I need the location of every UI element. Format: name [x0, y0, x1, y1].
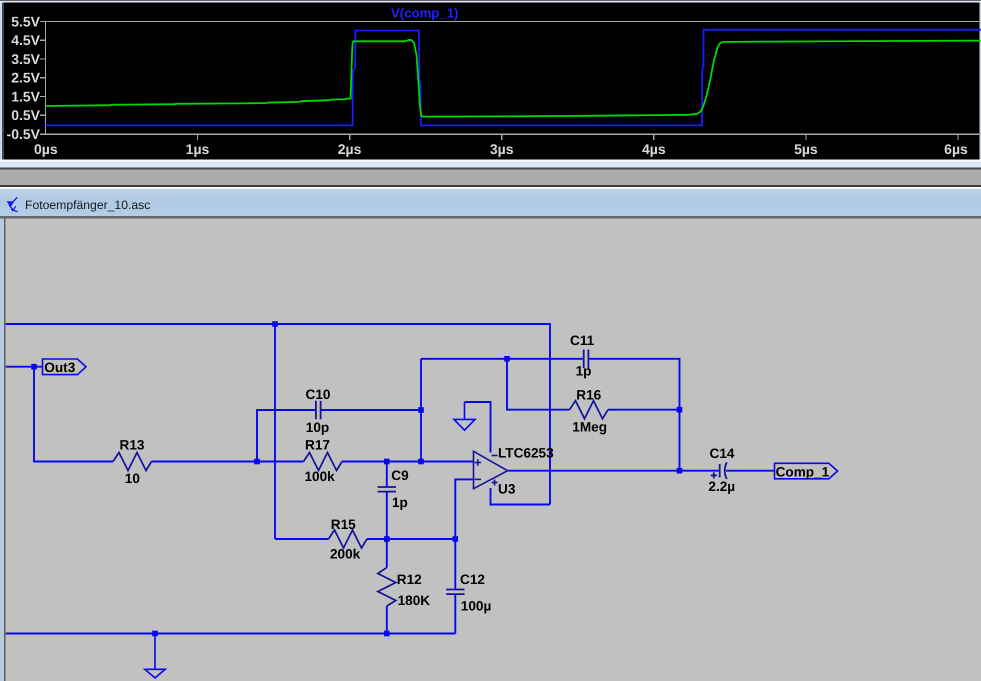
svg-text:0µs: 0µs: [34, 141, 58, 157]
junction ground stub: [152, 631, 158, 637]
svg-text:200k: 200k: [330, 547, 361, 562]
junction R16 tap: [504, 356, 510, 362]
junction R12/C9 node: [384, 536, 390, 542]
svg-text:10p: 10p: [306, 420, 329, 435]
svg-text:2µs: 2µs: [338, 141, 362, 157]
svg-text:2.5V: 2.5V: [11, 70, 40, 86]
wire op-amp V+ pin to top rail: [491, 488, 551, 505]
svg-text:C11: C11: [570, 333, 595, 348]
svg-text:-0.5V: -0.5V: [7, 126, 41, 142]
junction at x=257 input node: [254, 459, 260, 465]
wire R13 to R17: [152, 461, 304, 463]
wire op-amp output: [508, 470, 719, 472]
plot frame: [45, 22, 981, 135]
wire from Out3 down and to R13: [34, 367, 113, 462]
schematic window title bar: [0, 189, 981, 216]
wire ground rail: [6, 633, 456, 635]
junction output/feedback: [677, 468, 683, 474]
ground flag near op-amp: [454, 402, 475, 430]
trace V(comp_1) blue: [45, 30, 981, 126]
junction x421 input wire: [418, 459, 424, 465]
svg-text:V(comp_1): V(comp_1): [391, 5, 458, 20]
resistor R16: [570, 401, 609, 419]
wire C11 net horizontal y=358.8: [421, 358, 583, 360]
svg-text:Fotoempfänger_10.asc: Fotoempfänger_10.asc: [25, 198, 150, 212]
svg-text:5µs: 5µs: [794, 141, 818, 157]
svg-text:U3: U3: [498, 481, 516, 496]
svg-text:C12: C12: [460, 572, 485, 587]
x-axis labels: [34, 141, 968, 157]
resistor R17: [304, 453, 343, 471]
wire R17 to op-amp input: [342, 461, 474, 463]
svg-text:Comp_1: Comp_1: [776, 464, 830, 479]
y-axis ticks: [40, 22, 45, 135]
schematic canvas: [6, 219, 981, 681]
svg-text:3.5V: 3.5V: [11, 51, 40, 67]
wire R15 row y=539: [275, 538, 329, 540]
junction R16/output vertical: [677, 407, 683, 413]
trace green: [45, 40, 981, 117]
wire inverting input: [455, 479, 473, 539]
capacitor C11: [584, 350, 589, 369]
waveform window background: [0, 0, 981, 159]
svg-text:R17: R17: [305, 437, 330, 452]
svg-text:C10: C10: [306, 387, 331, 402]
junction R12 bottom: [384, 631, 390, 637]
ground flag bottom: [145, 634, 165, 678]
capacitor C10: [316, 401, 321, 420]
svg-text:LTC6253: LTC6253: [498, 445, 554, 460]
svg-text:3µs: 3µs: [490, 141, 514, 157]
resistor R15: [329, 530, 368, 548]
capacitor C14 polarized: [711, 462, 727, 479]
svg-text:C9: C9: [391, 468, 409, 483]
wire R15 to C12 node: [367, 538, 455, 540]
wire C10 branch left vertical: [257, 410, 315, 462]
wire Out3 stub: [6, 366, 43, 368]
capacitor C9 vertical: [378, 462, 396, 540]
svg-text:Out3: Out3: [44, 360, 75, 375]
junction C10/x421: [418, 407, 424, 413]
wire vertical x=421 joining nets: [420, 359, 422, 462]
junction C9 top: [384, 459, 390, 465]
wire C10 right to vertical x=421: [321, 409, 421, 411]
wire top supply rail: [6, 324, 550, 505]
svg-text:10: 10: [125, 471, 140, 486]
wire C11 right then down to output: [589, 359, 679, 471]
svg-text:1Meg: 1Meg: [572, 420, 607, 435]
junction at top rail x=275: [272, 321, 278, 327]
svg-text:1p: 1p: [576, 363, 592, 378]
svg-text:1.5V: 1.5V: [11, 88, 40, 104]
svg-text:R15: R15: [331, 517, 356, 532]
x-axis ticks: [198, 134, 959, 140]
op-amp U3 LTC6253: [474, 451, 508, 488]
svg-text:4.5V: 4.5V: [11, 32, 40, 48]
svg-text:0.5V: 0.5V: [11, 107, 40, 123]
svg-text:1µs: 1µs: [186, 141, 210, 157]
capacitor C12 vertical: [446, 539, 464, 634]
svg-text:5.5V: 5.5V: [11, 13, 40, 29]
port flag Comp_1: [775, 463, 838, 479]
wire C14 to Comp_1 port: [726, 470, 775, 472]
junction at Out3: [31, 364, 37, 370]
svg-text:100k: 100k: [305, 469, 336, 484]
svg-text:C14: C14: [710, 446, 735, 461]
svg-text:100µ: 100µ: [461, 598, 492, 613]
junction C12 node: [453, 536, 459, 542]
svg-text:6µs: 6µs: [944, 141, 968, 157]
port flag Out3: [43, 359, 87, 375]
resistor R12 vertical: [378, 539, 396, 634]
svg-text:180K: 180K: [398, 593, 431, 608]
schematic window border: [0, 216, 981, 681]
svg-text:R13: R13: [120, 438, 145, 453]
svg-text:4µs: 4µs: [642, 141, 666, 157]
y-axis labels: [7, 13, 41, 142]
wire R16 right to output vertical: [608, 409, 680, 411]
svg-text:1p: 1p: [392, 495, 408, 510]
title bar LTspice schematic icon: [8, 197, 18, 212]
splitter bar between windows: [0, 159, 981, 189]
svg-text:2.2µ: 2.2µ: [708, 479, 735, 494]
resistor R13: [113, 453, 152, 471]
wire R16 left vertical from C11 net: [507, 359, 570, 410]
svg-text:R12: R12: [397, 572, 422, 587]
wire vertical from top rail to R15: [274, 324, 276, 539]
wire ground to op-amp V- pin: [465, 402, 491, 453]
svg-text:R16: R16: [576, 388, 601, 403]
